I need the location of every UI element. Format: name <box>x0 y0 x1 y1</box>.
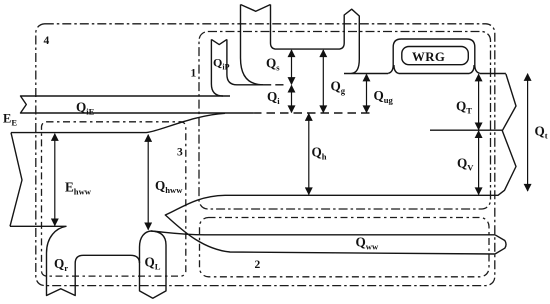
band Q_iP (small top band, torn notch top) <box>211 39 227 44</box>
arrow Q_g <box>322 50 324 113</box>
arrow Q_s <box>291 50 293 84</box>
svg-text:1: 1 <box>191 68 197 80</box>
zone box 4 (outer dash-dot boundary) <box>36 24 495 286</box>
WRG inner label box <box>402 47 469 65</box>
arrow Q_h <box>308 114 310 195</box>
band E_E bottom edge + hook into Q_r left edge + Q_r fork + bridge + Q_L chevron + Q_L right edge to junction <box>10 226 166 298</box>
svg-text:4: 4 <box>44 35 50 47</box>
WRG heat recovery bridge (outer) <box>388 39 480 73</box>
line between Q_T and Q_V bands <box>430 129 502 131</box>
arrow Q_hww <box>147 135 149 230</box>
band Q_ww top edge from junction <box>151 231 495 235</box>
svg-text:2: 2 <box>255 259 261 271</box>
band Q_s (wide top band, torn notch top) left edge sweeping to gains line <box>241 5 264 85</box>
arrow Q_i <box>291 85 293 112</box>
arrow Q_ug <box>366 74 368 112</box>
arrow Q_V <box>478 131 480 195</box>
band E_E input (tall left band) top edge with S-curve merging into balance line <box>10 133 22 227</box>
band Q_s right edge + zone ceiling U + exhaust band with pointed top + curve to WRG line <box>271 5 360 74</box>
zone box 3 (dashed boundary) <box>42 122 186 276</box>
zone ceiling line segments at y=73.5 under WRG <box>344 73 506 75</box>
zone box 2 (dashed boundary) <box>200 218 490 277</box>
zone box 1 (dash-dot boundary) <box>199 32 491 210</box>
dimension arrows <box>55 50 528 230</box>
arrow Q_T <box>478 74 480 129</box>
band Q_s torn top notch <box>241 5 271 12</box>
svg-text:3: 3 <box>177 147 183 159</box>
arrow E_hww <box>54 134 56 226</box>
balance reference line (dashed) at y=113 <box>253 112 372 114</box>
svg-text:WRG: WRG <box>412 50 445 64</box>
gains reference line (dashed) at y=84.8 <box>275 84 283 86</box>
Q_L left edge hook from junction <box>140 231 152 263</box>
band Q_ww right bullet end + bottom edge + wedge curves + floor line + torn right zigzag <box>165 74 516 254</box>
arrow Q_t <box>527 74 529 191</box>
band Q_iE (horizontal input band, torn left end) <box>21 96 254 113</box>
